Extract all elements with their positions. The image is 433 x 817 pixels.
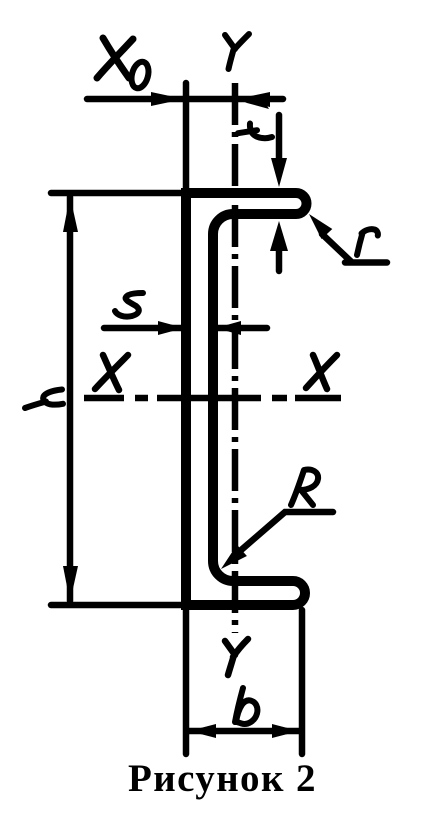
b arrow right-pointing [272,724,299,738]
label X0: subscript 0 [129,60,151,90]
r leader line [322,234,387,263]
label X right [306,355,337,389]
t dimension line upper [276,115,283,168]
label t [238,124,272,139]
b arrow left-pointing [189,724,216,738]
web left face extension line bottom [183,607,190,754]
label R [291,469,318,505]
s dimension line right [216,325,267,332]
s arrow right-pointing [158,321,184,335]
h bottom extension line [51,602,186,609]
t arrow down [271,158,287,187]
R leader line [240,512,333,551]
X0 dimension line [87,96,283,103]
r leader arrowhead [309,214,332,239]
channel profile outline [186,193,307,605]
label Y top [225,34,249,69]
X0 arrow left-pointing [237,92,270,107]
web left face extension line top [183,83,190,190]
t arrow up [270,221,288,251]
label h rotated [25,390,63,409]
Y axis dash-dot centerline [232,83,239,633]
label X0: X [97,38,133,78]
R leader arrowhead [221,545,247,569]
h dimension line [67,197,74,601]
label r (Cyrillic г) [357,229,378,255]
h top extension line [51,190,186,197]
label X left [95,355,128,390]
label Y bottom [225,639,248,675]
t dimension line lower [276,245,283,271]
X-X dash-dot centerline [84,395,341,402]
svg-text:Рисунок 2: Рисунок 2 [128,757,317,800]
h arrow up [63,196,78,232]
X0 arrow right-pointing [151,92,184,106]
label b [235,688,257,724]
s arrow left-pointing [216,321,241,335]
flange tip extension line bottom right [299,610,306,754]
b dimension line [189,728,299,735]
label s [115,293,143,317]
h arrow down [63,566,78,602]
s dimension line left [104,325,184,332]
